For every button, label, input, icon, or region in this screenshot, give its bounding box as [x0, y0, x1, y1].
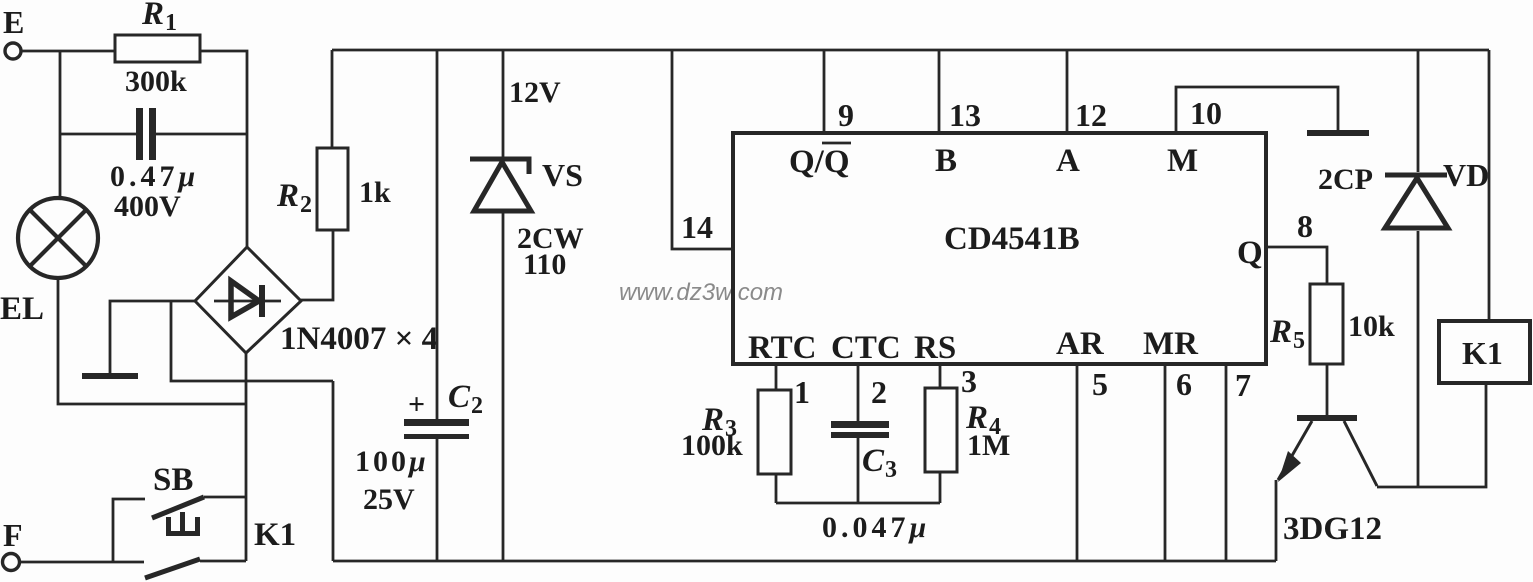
- wire pin 7: [1225, 365, 1228, 561]
- wire R1 right: [200, 51, 247, 248]
- svg-text:110: 110: [523, 248, 566, 281]
- svg-text:1: 1: [165, 10, 177, 36]
- svg-text:100μ: 100μ: [355, 445, 429, 478]
- wire C2 branch: [436, 50, 439, 421]
- svg-text:E: E: [3, 4, 24, 40]
- svg-text:+: +: [408, 388, 425, 421]
- svg-text:12V: 12V: [509, 76, 561, 109]
- svg-text:F: F: [3, 517, 23, 553]
- svg-text:2CP: 2CP: [1318, 163, 1373, 196]
- wire pin 12: [1066, 50, 1069, 133]
- svg-text:12: 12: [1075, 97, 1107, 133]
- svg-text:RTC: RTC: [748, 330, 817, 366]
- svg-text:300k: 300k: [125, 65, 187, 98]
- wire pin 3: [939, 365, 942, 388]
- pushbutton actuator SB: [166, 512, 200, 536]
- bottom rail: [333, 560, 1276, 563]
- wire lamp bottom: [58, 278, 245, 404]
- wire bridge left to ground: [110, 301, 195, 374]
- svg-text:K1: K1: [254, 517, 296, 553]
- svg-text:www.dz3w.com: www.dz3w.com: [619, 279, 783, 306]
- svg-text:9: 9: [838, 97, 854, 133]
- wire bridge bottom down: [245, 353, 248, 561]
- zener diode VS: [470, 159, 531, 211]
- lamp EL: [18, 198, 98, 278]
- switch K1 contact: [145, 559, 246, 578]
- wire cap branch left: [60, 133, 137, 136]
- svg-text:1: 1: [794, 374, 810, 410]
- svg-text:2: 2: [871, 374, 887, 410]
- wire pin 2: [857, 365, 860, 422]
- svg-text:1N4007 × 4: 1N4007 × 4: [280, 321, 438, 357]
- svg-text:SB: SB: [153, 462, 193, 498]
- svg-text:13: 13: [949, 97, 981, 133]
- wire pin 14: [672, 50, 733, 249]
- bridge inner diode: [214, 281, 281, 317]
- ground (pin 10): [1307, 130, 1369, 136]
- wire R2 branch: [331, 50, 334, 148]
- wire R2 bottom to bridge right: [301, 230, 333, 300]
- wire mid branch y381: [171, 301, 333, 381]
- wire R3 bottom: [775, 474, 778, 503]
- svg-text:6: 6: [1176, 366, 1192, 402]
- svg-text:Q: Q: [1237, 235, 1263, 271]
- ground (bridge left): [82, 373, 138, 379]
- top rail: [332, 49, 1489, 52]
- svg-text:B: B: [935, 143, 957, 179]
- wire E to R1: [20, 50, 115, 53]
- svg-text:Q/Q: Q/Q: [789, 144, 850, 180]
- wire VD branch: [1417, 50, 1420, 172]
- svg-text:3: 3: [885, 457, 897, 483]
- wire VD bottom: [1417, 231, 1420, 487]
- svg-text:25V: 25V: [363, 483, 415, 516]
- svg-text:10k: 10k: [1348, 310, 1395, 343]
- svg-text:2: 2: [300, 192, 312, 218]
- resistor R5: [1310, 284, 1343, 364]
- wire collector to K1: [1377, 383, 1486, 487]
- wire pin 1: [775, 365, 778, 390]
- resistor R4: [925, 388, 957, 472]
- svg-text:3DG12: 3DG12: [1283, 511, 1382, 547]
- svg-text:RS: RS: [914, 330, 956, 366]
- svg-text:2: 2: [471, 393, 483, 419]
- switch SB: [152, 497, 246, 518]
- wire cap right: [156, 133, 247, 136]
- svg-text:VS: VS: [542, 157, 583, 193]
- svg-text:5: 5: [1092, 366, 1108, 402]
- wire x333 down to rail: [332, 381, 335, 561]
- svg-text:C: C: [862, 443, 885, 479]
- svg-text:R: R: [276, 178, 299, 214]
- transistor Q1 3DG12: [1278, 415, 1377, 486]
- svg-text:AR: AR: [1056, 326, 1105, 362]
- svg-text:0.047μ: 0.047μ: [822, 511, 930, 544]
- wire K1 top: [1488, 50, 1491, 321]
- capacitor 0.47u plates: [136, 108, 156, 160]
- terminal E: [5, 43, 21, 59]
- svg-text:MR: MR: [1143, 326, 1199, 362]
- wire pin 9: [823, 50, 826, 133]
- op-amp U1 CD4541B box: [733, 133, 1266, 364]
- wire pin 13: [938, 50, 941, 133]
- svg-text:CD4541B: CD4541B: [944, 221, 1080, 257]
- wire R5 to base: [1326, 364, 1329, 415]
- svg-text:7: 7: [1235, 367, 1251, 403]
- capacitor C2: [404, 419, 469, 439]
- wire C3 bottom: [857, 438, 860, 503]
- svg-text:CTC: CTC: [831, 330, 901, 366]
- wire oscillator bus: [776, 502, 940, 505]
- svg-text:C: C: [448, 379, 471, 415]
- svg-text:R: R: [1269, 314, 1292, 350]
- wire pin 8 Q to R5: [1266, 247, 1327, 284]
- svg-text:R: R: [141, 0, 164, 32]
- bridge rectifier 1N4007x4: [195, 247, 301, 353]
- wire pin 10: [1176, 87, 1338, 133]
- relay K1: [1439, 321, 1530, 383]
- svg-text:1k: 1k: [359, 176, 391, 209]
- capacitor C3: [831, 421, 889, 438]
- resistor R3: [758, 390, 791, 474]
- svg-text:400V: 400V: [114, 190, 181, 223]
- resistor R2: [317, 148, 348, 230]
- svg-text:1M: 1M: [967, 429, 1010, 462]
- svg-text:M: M: [1167, 143, 1198, 179]
- wire emitter down: [1275, 480, 1278, 561]
- resistor R1: [115, 35, 200, 62]
- diode VD 2CP: [1385, 175, 1448, 228]
- wire SB branch up: [113, 499, 145, 562]
- svg-text:100k: 100k: [681, 429, 743, 462]
- svg-text:VD: VD: [1443, 157, 1489, 193]
- wire node at x60 down to lamp: [59, 51, 62, 199]
- wire pin 6: [1164, 365, 1167, 561]
- wire VS bottom: [502, 213, 505, 561]
- svg-text:K1: K1: [1462, 335, 1503, 371]
- wire R4 bottom: [939, 472, 942, 503]
- wire VS branch: [502, 50, 505, 160]
- wire pin 5: [1076, 365, 1079, 561]
- svg-text:A: A: [1056, 143, 1080, 179]
- svg-text:3: 3: [961, 363, 977, 399]
- svg-text:10: 10: [1190, 95, 1222, 131]
- wire F to switches: [19, 561, 144, 564]
- svg-text:EL: EL: [0, 291, 44, 327]
- svg-text:8: 8: [1297, 208, 1313, 244]
- svg-text:14: 14: [681, 209, 713, 245]
- terminal F: [3, 554, 20, 571]
- svg-text:5: 5: [1293, 328, 1305, 354]
- wire C2 bottom: [436, 439, 439, 561]
- svg-text:0.47μ: 0.47μ: [110, 160, 199, 193]
